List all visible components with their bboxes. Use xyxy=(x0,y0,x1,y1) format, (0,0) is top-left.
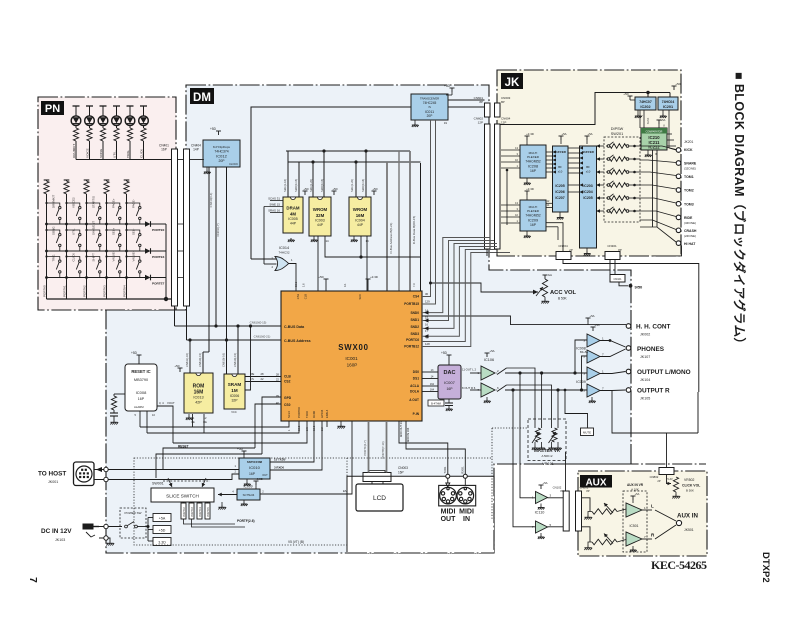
ROM 16M IC013 xyxy=(184,373,213,413)
svg-text:IC204: IC204 xyxy=(583,190,592,194)
label JK xyxy=(501,73,523,89)
resistor LED series xyxy=(73,128,78,141)
svg-text:JK103: JK103 xyxy=(55,538,65,542)
svg-text:8-P FlipFlops: 8-P FlipFlops xyxy=(213,145,231,149)
wire IC011 to JK connector A xyxy=(448,99,485,101)
wire CN404 bottom to C-BUS address xyxy=(186,306,188,340)
svg-text:KICK: KICK xyxy=(684,148,693,152)
svg-text:DOLA: DOLA xyxy=(410,390,420,394)
svg-text:SCAS 31: SCAS 31 xyxy=(268,197,280,201)
svg-text:IC203: IC203 xyxy=(583,184,592,188)
connector ports below slice switch xyxy=(181,503,186,519)
svg-text:CS3: CS3 xyxy=(296,294,300,300)
switch VOICE2 xyxy=(65,197,81,225)
connector CN601 8P xyxy=(485,103,491,117)
svg-text:+5A: +5A xyxy=(661,118,666,122)
svg-text:74HC4852: 74HC4852 xyxy=(525,160,540,164)
dotted link right xyxy=(347,457,492,459)
svg-text:IC207: IC207 xyxy=(555,196,564,200)
wire pot to IC501 b xyxy=(617,540,626,543)
wire WROM32 pins up xyxy=(312,162,314,197)
svg-text:16: 16 xyxy=(425,322,429,326)
switch SAVE/ENT xyxy=(85,221,101,253)
svg-text:DS1: DS1 xyxy=(413,377,419,381)
op-amp IC501 a xyxy=(631,496,636,500)
svg-text:CN102: CN102 xyxy=(553,486,562,490)
svg-text:32P: 32P xyxy=(231,398,238,402)
jack CRASH xyxy=(676,228,681,233)
svg-text:8P: 8P xyxy=(560,489,563,493)
svg-text:CRASH: CRASH xyxy=(684,229,697,233)
wire LED to bus xyxy=(116,141,118,160)
svg-text:SRAM: SRAM xyxy=(228,382,242,387)
svg-text:KEC-54265: KEC-54265 xyxy=(651,558,707,572)
jack RIDE xyxy=(676,215,681,220)
svg-text:WE: WE xyxy=(250,372,255,376)
power +3.3D tick IC009 xyxy=(254,481,259,485)
switch DIP row xyxy=(606,168,614,174)
ground buffer1 xyxy=(559,212,561,216)
svg-text:SENS: SENS xyxy=(647,117,650,124)
wire GPD route xyxy=(262,397,281,454)
wire IC202 to comparator verticals xyxy=(639,110,641,128)
svg-text:74HC07: 74HC07 xyxy=(639,100,652,104)
wire H.H. CONT xyxy=(422,316,626,325)
wire top bus C-BUS address xyxy=(187,339,282,341)
region JK (jack board) xyxy=(497,70,681,256)
ground IC009 xyxy=(243,500,245,502)
svg-text:19: 19 xyxy=(444,121,448,125)
wire IC009 to slice switch xyxy=(218,494,237,496)
switch CLICK xyxy=(65,253,81,279)
wire master VR feeds xyxy=(534,377,536,428)
svg-text:IC004: IC004 xyxy=(355,219,365,223)
svg-text:D-Bus Data B(D0-15): D-Bus Data B(D0-15) xyxy=(412,216,416,245)
wire matrix column xyxy=(126,194,128,299)
wire matrix column xyxy=(106,194,108,299)
op-amp IC106 R xyxy=(481,383,495,397)
svg-text:+5D: +5D xyxy=(318,275,323,279)
LED DRUMKIT xyxy=(71,106,81,128)
wire pot to IC501 a xyxy=(617,509,626,512)
switch DIP row xyxy=(606,207,614,213)
jack TOM1 xyxy=(676,174,681,179)
switch mute L blade xyxy=(495,372,498,374)
wire phones mix xyxy=(600,341,626,348)
wire WROM32 OE down xyxy=(317,236,319,291)
svg-text:+5A: +5A xyxy=(561,132,566,136)
svg-text:SONG: SONG xyxy=(51,226,55,235)
wire EN from SWX00 to IC009 xyxy=(326,421,328,427)
svg-text:VR101: VR101 xyxy=(542,462,554,466)
svg-text:SMD(0-16): SMD(0-16) xyxy=(361,179,365,192)
svg-text:16M: 16M xyxy=(356,213,365,218)
connector MIDI OUT MIDI IN DIN xyxy=(439,485,476,506)
bus D-Bus Address vertical xyxy=(386,162,388,291)
ground slice xyxy=(221,502,223,505)
wire output R to AUX right leg xyxy=(697,392,699,433)
svg-text:8P: 8P xyxy=(479,100,483,104)
svg-text:8P: 8P xyxy=(618,248,622,252)
svg-text:SMA(1-16): SMA(1-16) xyxy=(283,179,287,192)
wire SWX00 bottom run y433 RESET xyxy=(147,421,299,433)
svg-text:IC009: IC009 xyxy=(243,485,252,489)
svg-text:SAVE/ENT: SAVE/ENT xyxy=(91,221,95,235)
svg-text:VOICE2: VOICE2 xyxy=(71,197,75,208)
svg-text:CN801: CN801 xyxy=(580,486,589,490)
resistor DIP row xyxy=(610,170,626,175)
svg-text:CN610(0-21): CN610(0-21) xyxy=(254,335,271,339)
power +5A comparator xyxy=(657,120,662,124)
svg-text:74HC32: 74HC32 xyxy=(278,251,289,255)
svg-text:IC501: IC501 xyxy=(629,524,638,528)
wire IC012 to C-BUS address vertical xyxy=(226,167,228,340)
IC202 74HC07 xyxy=(628,96,633,100)
wire LED to bus xyxy=(89,141,91,160)
LCD module xyxy=(356,484,403,511)
op-amp IC110 a xyxy=(539,485,544,489)
switch SHIFT xyxy=(85,253,101,279)
svg-text:+5D: +5D xyxy=(675,82,680,86)
svg-text:IC010: IC010 xyxy=(249,465,260,470)
IC012 flip-flop 74HC374 xyxy=(203,140,240,167)
resistor DIP row xyxy=(610,157,626,162)
IC201 74HC04 xyxy=(672,86,677,90)
svg-text:b/w: b/w xyxy=(548,273,552,277)
svg-text:12P: 12P xyxy=(478,121,483,125)
capacitor DAC xyxy=(448,399,450,403)
resistor matrix pull-up xyxy=(64,180,70,194)
svg-text:IC013: IC013 xyxy=(193,396,203,400)
svg-text:SWE 15: SWE 15 xyxy=(269,203,280,207)
svg-text:DRUMKIT: DRUMKIT xyxy=(72,144,76,158)
svg-text:VALUE+: VALUE+ xyxy=(111,250,115,261)
wire ROM CE down xyxy=(192,414,194,427)
svg-text:+3.3D: +3.3D xyxy=(526,187,534,191)
resistor matrix pull-up xyxy=(104,180,110,194)
svg-text:1M: 1M xyxy=(231,388,238,393)
wire run y448 xyxy=(163,448,255,470)
diode PORTE3 xyxy=(145,248,166,259)
svg-text:UTIL.: UTIL. xyxy=(71,228,75,235)
svg-text:MB3790: MB3790 xyxy=(134,378,148,382)
wire matrix column xyxy=(66,194,68,299)
jack SNARE xyxy=(676,161,681,166)
svg-text:WROM: WROM xyxy=(353,207,368,212)
svg-text:PAGE+: PAGE+ xyxy=(111,198,115,208)
power +5D tick RESET xyxy=(137,355,142,359)
jack KICK JK201 xyxy=(676,148,681,153)
ground IC202 xyxy=(637,110,639,114)
RESET IC MB3790 IC008 xyxy=(125,364,157,411)
connector CN604 12P xyxy=(495,124,501,249)
resistor LED series xyxy=(141,128,146,141)
svg-text:JK002: JK002 xyxy=(640,333,650,337)
wire DIP row to comparator xyxy=(629,171,640,173)
svg-text:CLICK: CLICK xyxy=(71,253,75,262)
svg-text:CLB: CLB xyxy=(304,294,308,299)
svg-text:CN204: CN204 xyxy=(558,244,568,248)
ground ROM xyxy=(188,414,190,416)
resistor LED series xyxy=(100,128,105,141)
wire DIP row to comparator xyxy=(629,145,640,147)
svg-text:CS: CS xyxy=(250,377,254,381)
svg-text:IC009: IC009 xyxy=(576,380,586,384)
connector CN801 8P xyxy=(576,491,582,531)
wire WROM16 chip-select down xyxy=(360,236,362,257)
wire L to AUX IC110 xyxy=(520,373,536,498)
jack PHONES JK107 xyxy=(626,346,631,351)
wire mute xyxy=(565,390,588,428)
jack AUX IN JK501 xyxy=(676,520,681,525)
power +5D tick IC012 xyxy=(216,131,221,135)
svg-text:CN610(-15): CN610(-15) xyxy=(198,353,202,367)
svg-text:GPD: GPD xyxy=(284,396,292,400)
svg-text:CN610(0-6): CN610(0-6) xyxy=(209,193,213,208)
jack TOM2 xyxy=(676,188,681,193)
svg-text:IC005: IC005 xyxy=(288,217,298,221)
svg-text:SMD(0-15): SMD(0-15) xyxy=(320,179,324,192)
svg-text:TOM3: TOM3 xyxy=(684,202,694,206)
wire reset bottom pins xyxy=(139,411,141,427)
wire SRAM top pins xyxy=(226,340,228,374)
connector CN401 16P xyxy=(172,149,178,306)
ground DRAM xyxy=(288,238,295,242)
wire LED to bus xyxy=(143,141,145,160)
op-amp IC110 b xyxy=(536,521,548,533)
wire IC209 to buffer1 xyxy=(546,202,553,204)
wire R to AUX IC110 xyxy=(513,390,536,527)
wire OR inputs xyxy=(251,258,277,260)
switch PAGE+ xyxy=(105,198,121,225)
op-amp IC009 b xyxy=(587,384,600,397)
node MIDI OUT xyxy=(446,474,450,478)
wire IC011 down to SWX00 CS4 xyxy=(422,120,431,297)
svg-text:CN610(-16): CN610(-16) xyxy=(222,353,226,367)
jack HI HAT xyxy=(676,241,681,246)
jack OUTPUT R JK105 xyxy=(626,388,631,393)
LED TRIG. xyxy=(125,106,135,128)
svg-text:PORTB12: PORTB12 xyxy=(404,345,419,349)
wire IC208 to buffer xyxy=(546,151,553,153)
svg-text:TRIG.: TRIG. xyxy=(126,150,130,158)
variable resistor AUX R xyxy=(592,539,617,545)
IC010 driver xyxy=(239,458,270,479)
multiplexer IC208 xyxy=(525,136,530,140)
svg-text:DS0: DS0 xyxy=(413,370,419,374)
wire DC ground xyxy=(99,538,110,541)
svg-text:MIDI IN 164: MIDI IN 164 xyxy=(406,427,410,442)
svg-text:PHONES: PHONES xyxy=(637,346,665,353)
ground AUX R xyxy=(588,542,592,546)
switch DIP row xyxy=(606,142,614,148)
wire top data bus to IC011 xyxy=(251,107,411,170)
wire IC011 down to SWX00 PORTB15 xyxy=(422,120,436,304)
svg-text:RXD1: RXD1 xyxy=(460,466,464,474)
svg-text:SND3: SND3 xyxy=(410,332,419,336)
wire host TX xyxy=(94,474,239,480)
svg-text:A OUT: A OUT xyxy=(409,398,419,402)
svg-text:EN: EN xyxy=(343,489,347,493)
svg-text:14P: 14P xyxy=(193,148,199,152)
svg-text:4.1: 4.1 xyxy=(343,283,347,287)
svg-text:MIDI: MIDI xyxy=(459,509,474,516)
svg-text:30: 30 xyxy=(425,292,429,296)
svg-text:DIPSW: DIPSW xyxy=(611,127,624,131)
svg-text:SEL+: SEL+ xyxy=(111,228,115,235)
svg-text:AUX: AUX xyxy=(585,478,606,489)
svg-text:44P: 44P xyxy=(357,223,364,227)
svg-text:PN: PN xyxy=(45,103,60,115)
svg-text:WROM: WROM xyxy=(313,207,328,212)
svg-text:+3.3D: +3.3D xyxy=(370,275,378,279)
resistor matrix pull-up xyxy=(124,180,130,194)
svg-text:x10: x10 xyxy=(586,170,591,174)
power +5D tick IC011 xyxy=(450,88,455,92)
power +5D tick SWX00 top xyxy=(324,279,329,283)
svg-text:+5A: +5A xyxy=(542,481,547,485)
wire CN801 to aux L pot xyxy=(582,498,591,512)
svg-text:+5D: +5D xyxy=(210,127,217,131)
svg-text:MASTER VR: MASTER VR xyxy=(534,448,561,453)
wire frame loop LCD MIDI xyxy=(347,476,494,552)
wire DIP row to comparator xyxy=(629,184,640,186)
region AUX board xyxy=(578,471,707,556)
resistor matrix pull-up xyxy=(84,180,90,194)
switch PAGE- xyxy=(125,199,141,225)
wire CS0 route xyxy=(255,404,281,448)
wire DIP row to comparator xyxy=(629,158,640,160)
wire IC501 L out xyxy=(642,509,652,511)
svg-text:16P: 16P xyxy=(161,148,167,152)
wire diode-OR vertical xyxy=(165,224,167,299)
svg-text:BUFFER: BUFFER xyxy=(582,150,595,154)
svg-text:SND2: SND2 xyxy=(410,325,419,329)
svg-text:POWER SW: POWER SW xyxy=(125,511,142,515)
svg-text:+5A: +5A xyxy=(589,314,594,318)
op-amp IC501 b xyxy=(626,532,642,546)
wire IC201 down xyxy=(669,110,676,150)
wire MIDI IN from SWX00 xyxy=(406,421,465,474)
bus vertical mid xyxy=(398,151,400,291)
svg-text:IC001: IC001 xyxy=(345,356,358,361)
svg-text:TRANSCEIVER: TRANSCEIVER xyxy=(420,97,439,101)
IC011 transceiver 74HC245 xyxy=(411,94,448,120)
svg-text:1.6: 1.6 xyxy=(302,283,306,287)
svg-text:(3ZONE): (3ZONE) xyxy=(684,221,696,225)
multiplexer IC209 xyxy=(525,191,530,195)
power switch box xyxy=(120,508,146,538)
wire DRAM pin up 2 xyxy=(298,162,300,197)
switch DRUMKIT xyxy=(45,195,61,226)
svg-text:IC008: IC008 xyxy=(576,347,586,351)
svg-text:B-4THM: B-4THM xyxy=(431,402,441,406)
wire ROM top pins xyxy=(189,340,191,373)
svg-text:+5D: +5D xyxy=(303,187,308,191)
svg-text:MIDI: MIDI xyxy=(441,509,456,516)
svg-text:8 OUT R 6: 8 OUT R 6 xyxy=(462,386,476,390)
svg-text:BF: BF xyxy=(558,165,562,169)
svg-text:28: 28 xyxy=(261,372,264,376)
wire R to IC008b xyxy=(582,356,588,390)
svg-text:SN75C1588: SN75C1588 xyxy=(247,460,263,464)
connector CN404 14P xyxy=(184,149,190,306)
svg-text:SCL4: SCL4 xyxy=(287,411,291,418)
svg-text:74HC4852: 74HC4852 xyxy=(525,214,540,218)
svg-text:7.3: 7.3 xyxy=(412,283,416,287)
svg-text:BUFFER: BUFFER xyxy=(554,150,567,154)
wire LED cathode bus xyxy=(76,159,172,161)
svg-text:VALUE-: VALUE- xyxy=(131,251,135,261)
svg-text:+5D: +5D xyxy=(332,187,337,191)
ground IC201 xyxy=(662,110,664,114)
svg-text:A 50K×2: A 50K×2 xyxy=(541,454,552,458)
switch UTIL. xyxy=(65,228,81,253)
svg-text:AUX IN: AUX IN xyxy=(677,513,699,520)
svg-text:SW201: SW201 xyxy=(611,132,623,136)
mute control box xyxy=(581,428,594,436)
svg-text:5-3V: 5-3V xyxy=(667,478,673,481)
svg-text:PORTA1: PORTA1 xyxy=(63,285,67,297)
wire bus right vertical xyxy=(420,163,422,291)
wire LED to bus xyxy=(102,141,104,160)
ground IC009 op xyxy=(591,397,593,399)
svg-text:74HC04: 74HC04 xyxy=(662,100,675,104)
svg-text:IC206: IC206 xyxy=(555,190,564,194)
svg-text:CS0: CS0 xyxy=(284,403,291,407)
wire output R to CN802 xyxy=(612,391,667,469)
label PN xyxy=(41,101,64,115)
svg-text:CLOCK: CLOCK xyxy=(229,162,238,166)
wire CN201 down xyxy=(609,260,611,275)
switch mute R blade xyxy=(495,389,498,391)
svg-text:OUTPUT L/MONO: OUTPUT L/MONO xyxy=(637,369,691,376)
svg-text:CN802: CN802 xyxy=(650,475,659,479)
variable resistor ACC VOL xyxy=(543,275,548,279)
svg-text:8P: 8P xyxy=(501,100,505,104)
svg-text:SW001: SW001 xyxy=(152,482,164,486)
label AUX xyxy=(580,475,612,488)
wire fan to jacks xyxy=(640,146,676,150)
wire matrix row xyxy=(47,250,146,252)
svg-text:ACC VOL: ACC VOL xyxy=(550,290,577,296)
dash-dot stub right of DM corner xyxy=(565,463,706,465)
power +5D tick DAC xyxy=(447,355,452,359)
svg-text:13.1: 13.1 xyxy=(294,281,298,287)
svg-text:160P: 160P xyxy=(347,363,358,368)
connector TO HOST JK001 xyxy=(74,462,95,486)
comparator block xyxy=(641,128,667,150)
diode PORTE7 xyxy=(145,275,166,286)
resistor DIP row xyxy=(610,144,626,149)
wire CN to IC209 xyxy=(501,204,520,206)
connector CN101 6P xyxy=(610,275,625,283)
wire RXD0 from SWX00 xyxy=(270,421,322,470)
svg-text:+5D: +5D xyxy=(444,84,451,88)
resistor LED series xyxy=(87,128,92,141)
wire LED to bus xyxy=(75,141,77,160)
svg-text:+5A: +5A xyxy=(635,492,640,496)
power +5D tick ROM xyxy=(178,368,183,372)
svg-text:PORTF4: PORTF4 xyxy=(199,507,202,517)
wire SWE vertical to OR gate xyxy=(263,207,265,265)
svg-text:CN101: CN101 xyxy=(613,277,622,281)
svg-text:RIDE: RIDE xyxy=(684,216,693,220)
bus SWX00 to LCD 1 xyxy=(368,421,370,473)
wire memory address bus upper xyxy=(286,150,410,152)
svg-text:B 50K: B 50K xyxy=(558,297,568,301)
node MIDI IN xyxy=(463,474,467,478)
